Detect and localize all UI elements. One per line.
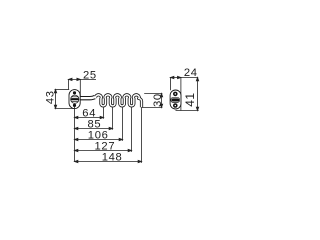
dimension 41 (right fitting height)	[176, 78, 199, 111]
right fitting centre slot	[171, 97, 180, 102]
dimension 43 (left fitting height)	[54, 90, 74, 109]
dimension 24 (right fitting width)	[170, 76, 198, 110]
left terminal fitting (mounting plate)	[69, 90, 80, 109]
svg-text:64: 64	[82, 107, 96, 119]
datum extension line from left fitting	[74, 107, 76, 162]
dimension 64	[75, 116, 104, 118]
right fitting bottom mounting hole	[173, 103, 178, 108]
dimension 25 (left fitting width)	[68, 78, 96, 96]
dimension 127	[75, 149, 132, 151]
heater coil serpentine tube (outer wall)	[96, 95, 142, 107]
svg-text:43: 43	[45, 90, 57, 104]
dimension 30 (coil height, right end)	[142, 94, 163, 108]
svg-text:25: 25	[83, 69, 97, 81]
right fitting top mounting hole	[173, 92, 178, 97]
feed tube bore (inner white)	[80, 97, 96, 98]
dimension 85	[75, 127, 113, 129]
left fitting bottom mounting hole	[73, 104, 76, 107]
left fitting top mounting hole	[73, 91, 76, 94]
coil leg extension lines	[104, 107, 142, 163]
heater coil bore (inner white)	[96, 95, 142, 107]
svg-text:127: 127	[95, 141, 116, 153]
svg-text:41: 41	[183, 92, 197, 106]
left fitting centre terminal boss	[71, 95, 79, 103]
dimension 106	[75, 138, 123, 140]
right terminal fitting (mounting plate)	[170, 90, 181, 109]
svg-text:30: 30	[152, 93, 164, 107]
svg-text:24: 24	[184, 67, 198, 79]
svg-text:148: 148	[102, 152, 123, 164]
feed tube from left fitting (outer wall)	[80, 97, 96, 98]
dimension 148	[75, 160, 142, 162]
